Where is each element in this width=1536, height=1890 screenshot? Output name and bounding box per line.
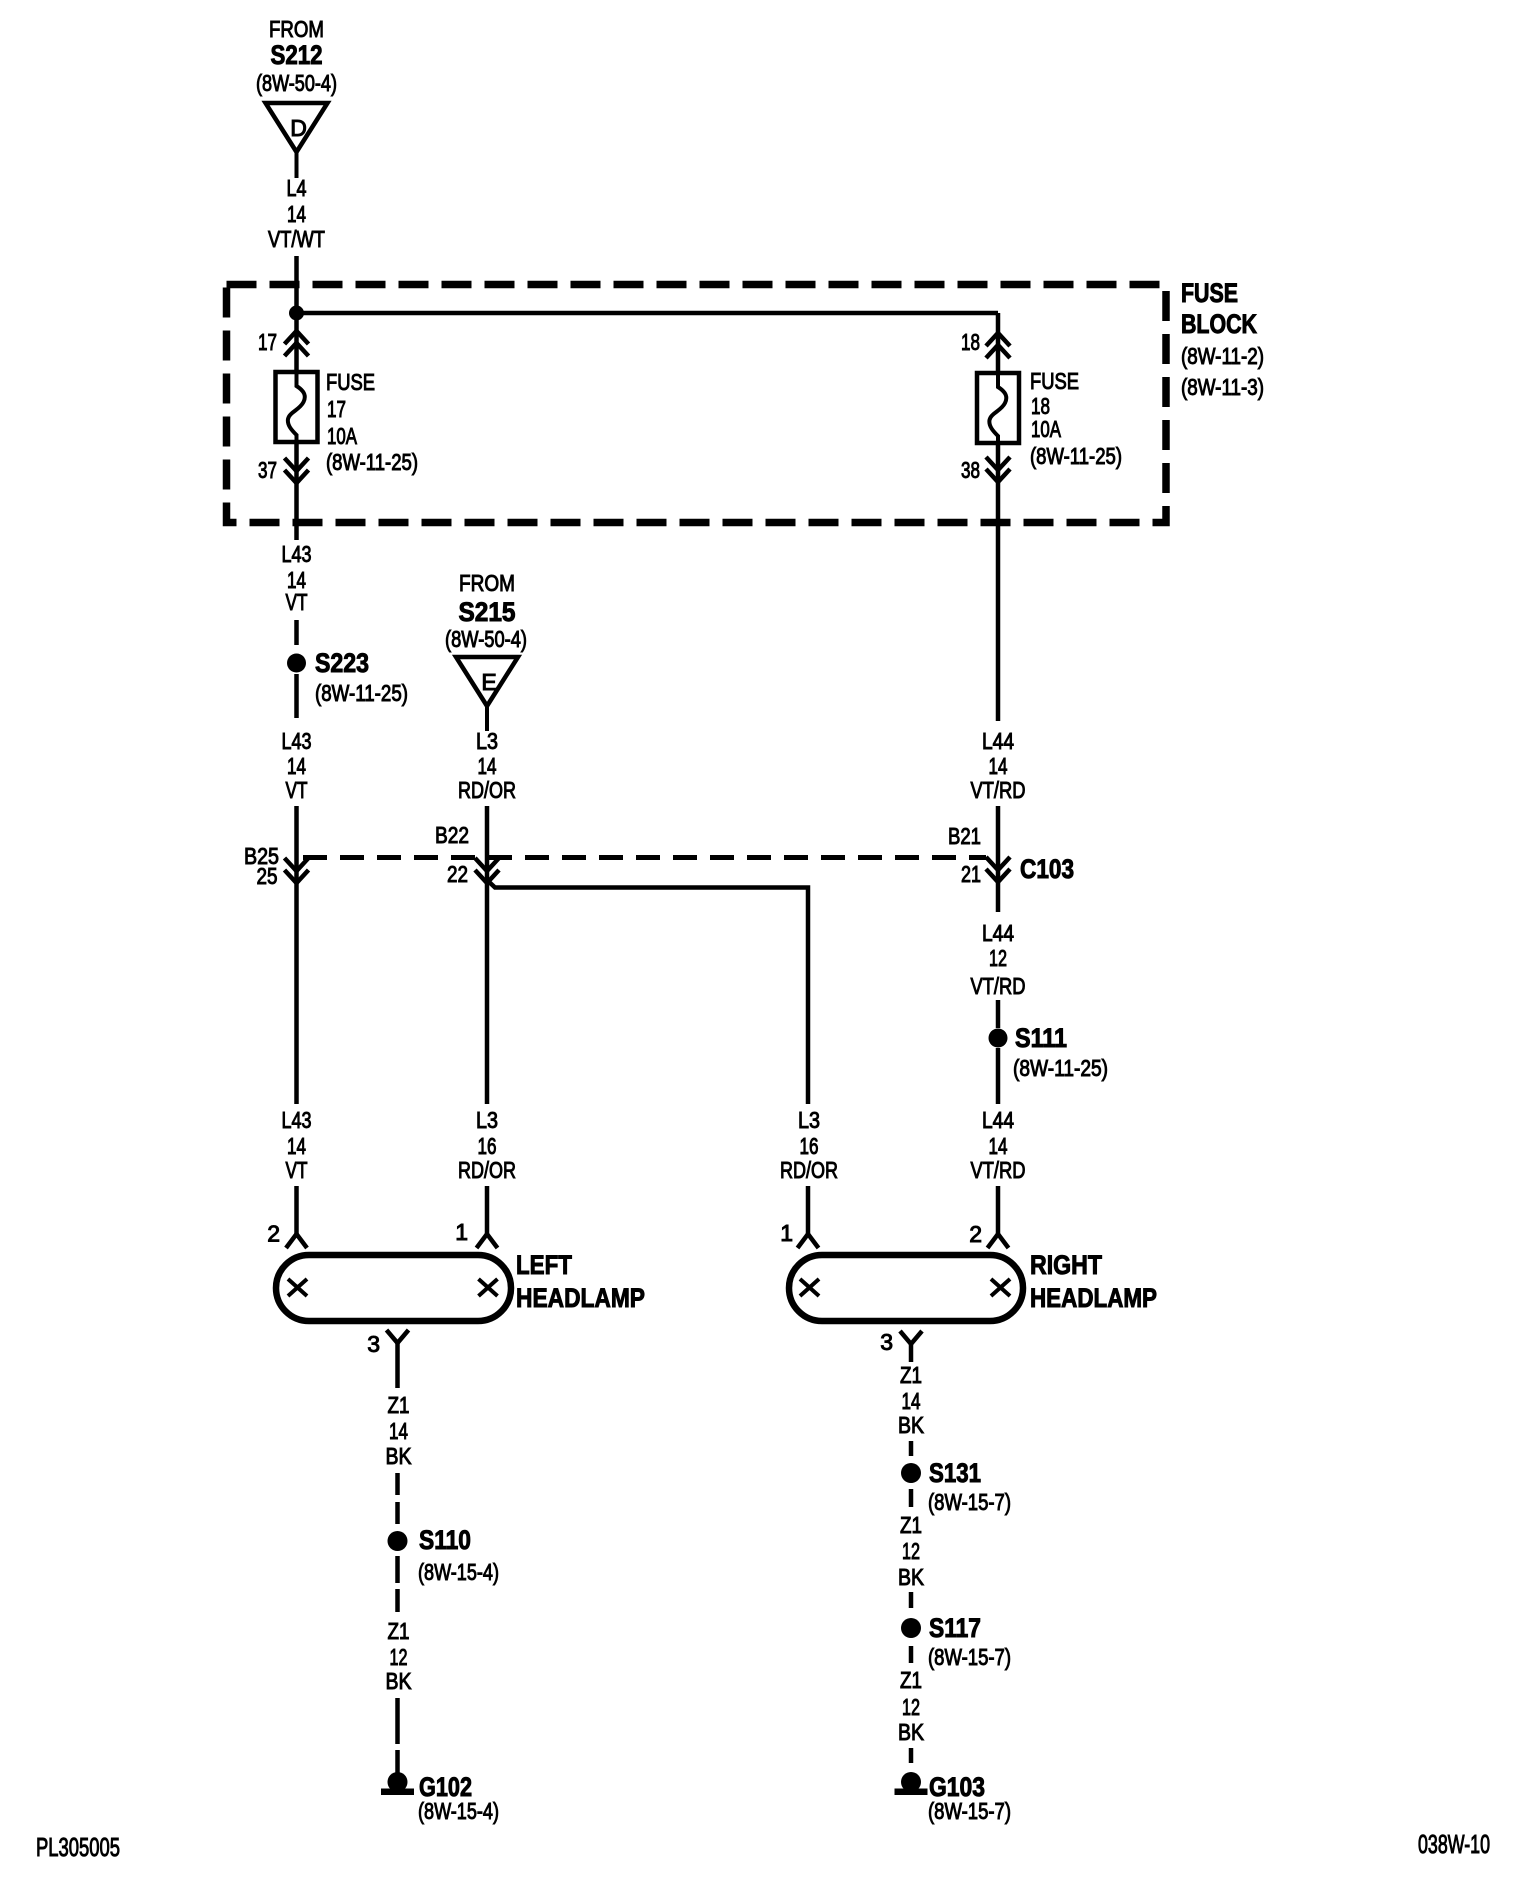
svg-text:FUSE: FUSE <box>326 369 375 395</box>
svg-text:B22: B22 <box>435 822 469 848</box>
svg-text:S131: S131 <box>929 1458 981 1488</box>
svg-text:(8W-15-7): (8W-15-7) <box>928 1798 1011 1824</box>
svg-text:VT/WT: VT/WT <box>268 226 325 252</box>
svg-text:L3: L3 <box>476 728 498 754</box>
svg-text:1: 1 <box>455 1219 468 1245</box>
svg-text:(8W-50-4): (8W-50-4) <box>256 70 337 96</box>
svg-text:VT/RD: VT/RD <box>971 973 1026 999</box>
svg-text:17: 17 <box>258 329 277 355</box>
svg-text:(8W-11-3): (8W-11-3) <box>1181 374 1264 400</box>
svg-text:BLOCK: BLOCK <box>1181 309 1257 339</box>
svg-text:FUSE: FUSE <box>1181 278 1238 308</box>
svg-text:VT/RD: VT/RD <box>971 777 1026 803</box>
svg-text:RD/OR: RD/OR <box>458 777 516 803</box>
svg-text:(8W-11-25): (8W-11-25) <box>1013 1055 1108 1081</box>
svg-text:12: 12 <box>390 1644 408 1670</box>
svg-text:B21: B21 <box>948 823 981 849</box>
svg-text:12: 12 <box>989 945 1007 971</box>
svg-text:14: 14 <box>902 1388 921 1414</box>
svg-text:BK: BK <box>898 1564 925 1590</box>
svg-text:S117: S117 <box>929 1613 981 1643</box>
svg-text:14: 14 <box>287 201 306 227</box>
svg-text:10A: 10A <box>1031 416 1061 442</box>
svg-text:(8W-15-7): (8W-15-7) <box>928 1644 1011 1670</box>
svg-text:10A: 10A <box>327 423 357 449</box>
svg-text:Z1: Z1 <box>388 1392 410 1418</box>
svg-text:(8W-50-4): (8W-50-4) <box>445 626 527 652</box>
svg-text:S110: S110 <box>419 1525 471 1555</box>
svg-text:2: 2 <box>969 1221 982 1247</box>
svg-text:RIGHT: RIGHT <box>1030 1250 1102 1280</box>
svg-text:VT/RD: VT/RD <box>971 1157 1026 1183</box>
svg-text:(8W-11-2): (8W-11-2) <box>1181 343 1264 369</box>
svg-text:PL305005: PL305005 <box>36 1832 120 1862</box>
svg-text:(8W-11-25): (8W-11-25) <box>326 449 418 475</box>
svg-text:BK: BK <box>386 1668 413 1694</box>
svg-text:3: 3 <box>367 1331 380 1357</box>
svg-text:RD/OR: RD/OR <box>458 1157 516 1183</box>
svg-text:(8W-15-4): (8W-15-4) <box>418 1559 499 1585</box>
svg-text:HEADLAMP: HEADLAMP <box>516 1283 645 1313</box>
svg-text:L44: L44 <box>982 728 1014 754</box>
svg-text:(8W-15-7): (8W-15-7) <box>928 1489 1011 1515</box>
svg-text:14: 14 <box>989 753 1008 779</box>
svg-text:L3: L3 <box>476 1107 498 1133</box>
svg-text:14: 14 <box>287 753 306 779</box>
svg-text:Z1: Z1 <box>900 1667 922 1693</box>
svg-text:16: 16 <box>478 1133 497 1159</box>
svg-text:L3: L3 <box>798 1107 820 1133</box>
svg-text:S215: S215 <box>459 597 516 627</box>
svg-text:VT: VT <box>286 777 308 803</box>
svg-text:FUSE: FUSE <box>1030 368 1079 394</box>
svg-text:L43: L43 <box>282 728 312 754</box>
svg-text:L44: L44 <box>982 920 1014 946</box>
svg-text:12: 12 <box>902 1538 920 1564</box>
svg-text:1: 1 <box>780 1220 793 1246</box>
svg-text:2: 2 <box>267 1221 280 1247</box>
svg-text:Z1: Z1 <box>388 1618 410 1644</box>
svg-text:25: 25 <box>257 863 278 889</box>
svg-text:(8W-11-25): (8W-11-25) <box>315 680 408 706</box>
svg-text:17: 17 <box>327 396 346 422</box>
svg-text:21: 21 <box>961 861 981 887</box>
svg-text:FROM: FROM <box>269 16 324 42</box>
svg-text:E: E <box>481 669 496 695</box>
svg-text:038W-10: 038W-10 <box>1418 1829 1490 1859</box>
svg-text:3: 3 <box>880 1329 893 1355</box>
svg-text:22: 22 <box>447 861 468 887</box>
svg-text:18: 18 <box>961 329 980 355</box>
svg-text:VT: VT <box>286 1157 308 1183</box>
svg-text:S111: S111 <box>1015 1023 1067 1053</box>
svg-text:RD/OR: RD/OR <box>780 1157 838 1183</box>
svg-text:37: 37 <box>258 457 277 483</box>
svg-text:BK: BK <box>386 1443 413 1469</box>
svg-text:C103: C103 <box>1020 854 1074 884</box>
svg-text:L43: L43 <box>282 541 312 567</box>
svg-text:(8W-11-25): (8W-11-25) <box>1030 443 1122 469</box>
svg-text:S212: S212 <box>271 40 323 70</box>
svg-text:14: 14 <box>287 1133 306 1159</box>
svg-text:12: 12 <box>902 1694 920 1720</box>
svg-text:14: 14 <box>478 753 497 779</box>
svg-text:14: 14 <box>389 1418 408 1444</box>
svg-text:16: 16 <box>800 1133 819 1159</box>
svg-text:BK: BK <box>898 1412 925 1438</box>
svg-text:HEADLAMP: HEADLAMP <box>1030 1283 1157 1313</box>
svg-text:VT: VT <box>286 589 308 615</box>
svg-text:BK: BK <box>898 1719 925 1745</box>
svg-text:FROM: FROM <box>459 570 515 596</box>
svg-text:38: 38 <box>961 457 980 483</box>
svg-text:S223: S223 <box>315 648 369 678</box>
svg-text:L44: L44 <box>982 1107 1014 1133</box>
svg-text:D: D <box>290 115 307 141</box>
svg-text:LEFT: LEFT <box>516 1250 572 1280</box>
svg-text:14: 14 <box>989 1133 1008 1159</box>
svg-text:L4: L4 <box>287 175 307 201</box>
svg-text:L43: L43 <box>282 1107 312 1133</box>
svg-text:Z1: Z1 <box>900 1512 922 1538</box>
svg-text:Z1: Z1 <box>900 1362 922 1388</box>
svg-text:(8W-15-4): (8W-15-4) <box>418 1798 499 1824</box>
